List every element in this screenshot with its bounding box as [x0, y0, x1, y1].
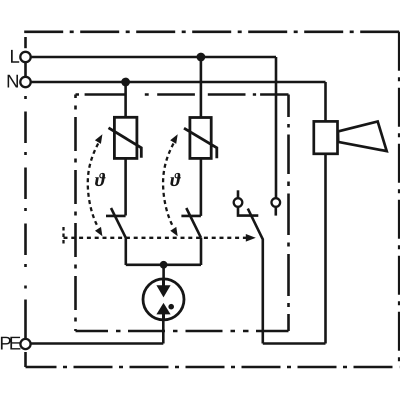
varistor MOV2 lead top [200, 57, 203, 118]
wire N line [31, 81, 326, 84]
remote signalling switch blade [248, 209, 263, 344]
wire to spark gap [162, 265, 165, 279]
outer enclosure border left [24, 37, 27, 367]
buzzer / acoustic signal device [314, 121, 387, 153]
wire spark gap to PE [162, 320, 165, 344]
wire L drop to signal contact [275, 57, 278, 198]
mechanical linkage start tick [62, 227, 64, 245]
remote signalling contact terminal 1 [234, 190, 259, 215]
label N [8, 75, 18, 88]
node junction to spark gap [160, 261, 168, 269]
thermal actuation arrow 1 [88, 134, 103, 236]
terminal L [20, 52, 30, 62]
node junction on N [121, 78, 130, 87]
inner protection-module box top [76, 93, 289, 96]
label L [11, 50, 19, 63]
label theta 1 [95, 173, 106, 186]
label theta 2 [170, 173, 181, 186]
label PE [1, 337, 21, 350]
thermal actuation arrow 2 [163, 134, 178, 236]
thermal disconnect switch 1 [106, 208, 126, 265]
wire PE line [31, 342, 164, 345]
terminal N [20, 77, 30, 87]
terminal PE [20, 339, 30, 349]
outer enclosure border bottom [26, 366, 400, 369]
spark gap F1 [143, 279, 184, 320]
wire L line [31, 56, 276, 59]
node junction on L [197, 53, 206, 62]
varistor MOV2 body [184, 118, 217, 159]
inner protection-module box bottom [76, 330, 289, 333]
varistor MOV1 body [109, 117, 142, 158]
thermal disconnect switch 2 [181, 208, 201, 265]
varistor MOV1 lead bottom [124, 158, 127, 215]
mechanical linkage dotted line [64, 237, 247, 239]
varistor MOV1 lead top [124, 82, 127, 117]
remote signalling contact terminal 2 [272, 198, 281, 215]
outer enclosure border right [398, 32, 400, 367]
inner protection-module box left [74, 95, 77, 332]
mechanical linkage arrowhead [246, 234, 256, 242]
wire bottom signal link [263, 342, 326, 345]
inner protection-module box right [287, 95, 290, 332]
outer enclosure border top [24, 30, 399, 33]
wire joining disconnects [126, 263, 201, 266]
varistor MOV2 lead bottom [200, 158, 203, 216]
wire N drop to buzzer [324, 82, 327, 121]
wire buzzer bottom [324, 154, 327, 344]
